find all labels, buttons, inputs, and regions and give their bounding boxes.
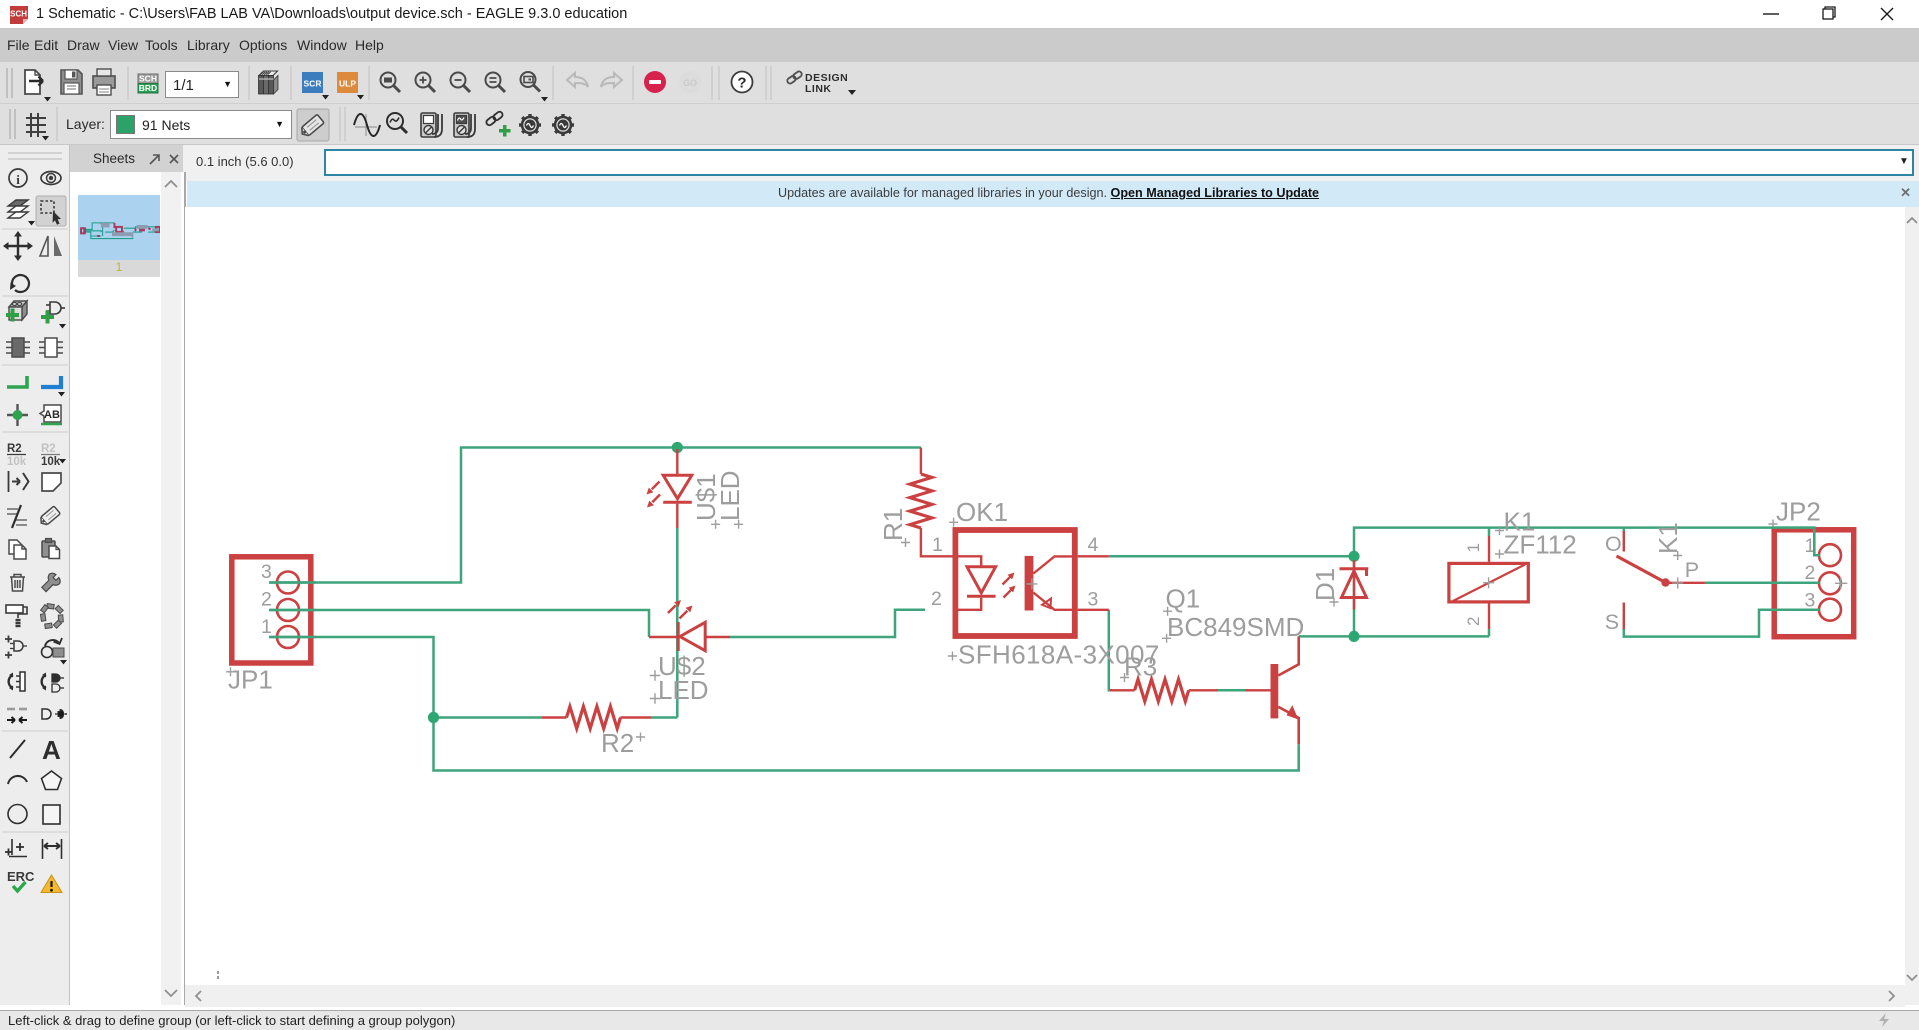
- svg-text:LED: LED: [658, 675, 709, 705]
- help: [732, 72, 753, 93]
- svg-text:LINK: LINK: [805, 83, 832, 95]
- wire D1 vertical: [1353, 556, 1356, 636]
- optocoupler OK1: [953, 530, 1109, 636]
- circle icon: [8, 805, 27, 824]
- wire R3 to Q1 base: [1218, 689, 1245, 692]
- svg-text:i: i: [16, 172, 20, 187]
- relay contact switch K1: [1617, 531, 1705, 629]
- svg-text:2: 2: [1464, 617, 1483, 626]
- wire switch S to JP2 pin3: [1624, 610, 1819, 637]
- rotate: [12, 275, 29, 292]
- rect icon: [43, 805, 60, 824]
- invoke gate: [5, 636, 27, 659]
- svg-text:SCH: SCH: [10, 10, 27, 19]
- errors warning: [41, 875, 62, 893]
- zoom in: [416, 73, 436, 93]
- svg-text:S: S: [1605, 610, 1619, 634]
- svg-text:1: 1: [932, 534, 943, 556]
- diode D1: [1340, 560, 1369, 610]
- resistor R3: [1110, 679, 1218, 701]
- zoom select: [486, 73, 506, 93]
- tag button (pressed): [297, 109, 329, 141]
- JP2 pin labels: [1805, 535, 1816, 612]
- svg-text:A: A: [42, 735, 61, 765]
- net class icon: [7, 509, 27, 525]
- svg-text:?: ?: [737, 75, 746, 92]
- svg-text:R1: R1: [878, 508, 908, 541]
- wire net N2 JP1.2 to U$2 anode: [270, 610, 649, 637]
- change icon: [42, 638, 63, 658]
- SCH/BRD icon: [138, 74, 158, 94]
- paste: [42, 539, 60, 559]
- svg-text:R2: R2: [601, 728, 634, 758]
- svg-text:P: P: [1685, 558, 1699, 582]
- wire K1 pin2 stub bottom: [1488, 629, 1491, 636]
- split icon 2: [42, 673, 64, 693]
- connector JP1: [232, 557, 311, 663]
- wire vertical U$1 cathode to R2 right: [651, 528, 677, 718]
- wire OK1 pin4 to top-right rail to JP2 pin1: [1109, 528, 1819, 557]
- trash: [10, 575, 25, 592]
- svg-text:Q1: Q1: [1166, 584, 1201, 614]
- gear 2: [552, 114, 574, 136]
- smash: [6, 338, 30, 357]
- paint roller: [6, 605, 27, 626]
- eye: [41, 172, 61, 185]
- svg-text:1: 1: [261, 616, 272, 638]
- tag small icon: [38, 506, 60, 527]
- grid icon: [26, 113, 46, 137]
- multimeter 2: [454, 113, 475, 137]
- wire overlays crossing JP1 border: [269, 528, 1820, 637]
- wire K1 pin1 stub top: [1488, 528, 1491, 536]
- svg-text:4: 4: [1088, 534, 1099, 556]
- display layers: [8, 200, 28, 218]
- svg-text:2: 2: [261, 589, 272, 611]
- svg-text:2: 2: [1805, 562, 1816, 584]
- SCR icon: [302, 72, 329, 100]
- link +: [485, 111, 504, 127]
- library books icon: [259, 71, 279, 94]
- wire Q1 collector rail to K1 pin2: [1299, 635, 1489, 638]
- dimension icon: [5, 839, 27, 857]
- junction dot D: [1348, 631, 1359, 642]
- zoom redraw: [521, 72, 541, 92]
- svg-text:BRD: BRD: [139, 83, 157, 93]
- svg-text:R2: R2: [41, 443, 56, 455]
- JP1 pin labels: [261, 561, 272, 638]
- svg-text:K1: K1: [1653, 522, 1683, 554]
- new/open doc icon: [25, 70, 43, 94]
- svg-text:BC849SMD: BC849SMD: [1167, 612, 1304, 642]
- gear 1: [519, 114, 541, 136]
- svg-text:SCR: SCR: [304, 79, 322, 89]
- sheet origin mark: [217, 971, 219, 979]
- add part: [9, 301, 27, 320]
- design link: [786, 70, 803, 84]
- pin icon: [9, 471, 29, 492]
- wire N3 tap to R2: [434, 716, 543, 719]
- label: [40, 405, 61, 422]
- svg-text:10k: 10k: [41, 456, 61, 468]
- svg-text:R2: R2: [7, 443, 22, 455]
- svg-text:3: 3: [1088, 588, 1099, 610]
- wire U$2 cathode to OK1 pin2: [730, 610, 925, 637]
- info: [9, 169, 27, 187]
- svg-text:ULP: ULP: [339, 79, 356, 89]
- wire switch O stub top: [1623, 528, 1626, 532]
- junction dot C: [1348, 551, 1359, 562]
- sheets scrollbar: [161, 172, 181, 1005]
- copy: [9, 540, 26, 559]
- move: [7, 235, 29, 257]
- zoom fit: [381, 73, 401, 93]
- svg-text:GO: GO: [683, 78, 697, 88]
- zoom out: [451, 73, 471, 93]
- mirror: [40, 236, 48, 256]
- svg-text:OK1: OK1: [956, 497, 1008, 527]
- svg-text:D1: D1: [1310, 568, 1340, 601]
- wire net N3 JP1.1 down to bottom rail: [270, 637, 1299, 771]
- transistor Q1: [1245, 636, 1299, 744]
- undo/redo (disabled): [567, 73, 622, 87]
- measure icon: [43, 839, 62, 859]
- arc icon: [8, 776, 27, 784]
- svg-text:O: O: [1605, 532, 1622, 556]
- svg-text:1: 1: [1464, 543, 1483, 552]
- LED U$2: [649, 605, 730, 651]
- sine wave: [354, 114, 380, 136]
- svg-text:LED: LED: [715, 470, 745, 521]
- replace: [39, 338, 63, 357]
- resistor R2: [542, 707, 651, 729]
- wire OK1 pin3 down to R3: [1109, 610, 1112, 691]
- thumbnail: [78, 195, 160, 260]
- junction: [7, 404, 28, 426]
- junction dot B: [428, 712, 439, 723]
- add gate: [46, 302, 65, 314]
- svg-text:JP2: JP2: [1776, 497, 1821, 527]
- bus (blue corner): [41, 376, 61, 387]
- print icon: [93, 69, 115, 95]
- wire net N1 JP1.3 to top rail to R1: [270, 448, 921, 583]
- line icon: [10, 740, 25, 758]
- arrows icon: [7, 708, 27, 711]
- net (green corner): [7, 376, 27, 387]
- svg-text:ERC: ERC: [7, 869, 35, 884]
- svg-text:SCH: SCH: [139, 74, 157, 84]
- wire switch P to JP2 pin2: [1705, 582, 1819, 585]
- split icon 1: [9, 672, 25, 691]
- LED U$1: [652, 449, 692, 528]
- svg-text:2: 2: [931, 588, 942, 610]
- ULP icon: [337, 72, 364, 100]
- svg-text:3: 3: [261, 561, 272, 583]
- svg-text:3: 3: [1805, 590, 1816, 612]
- wire overlays crossing JP2 border: [1772, 528, 1820, 556]
- polygon corner icon: [42, 473, 61, 491]
- group edit dots: [40, 604, 63, 629]
- svg-text:ZF112: ZF112: [1504, 530, 1577, 560]
- gate plug icon: [42, 709, 67, 719]
- save icon: [61, 70, 82, 94]
- svg-text:10k: 10k: [7, 456, 27, 468]
- stop (red): [644, 71, 666, 93]
- polygon icon: [42, 771, 62, 790]
- select group (pressed): [36, 196, 66, 226]
- connector JP2: [1774, 530, 1854, 637]
- magnifier sine: [387, 113, 407, 133]
- multimeter 1: [421, 113, 442, 137]
- resistor R1: [910, 448, 953, 557]
- go (disabled): [679, 71, 701, 93]
- wrench: [39, 571, 62, 594]
- junction dot A: [672, 442, 683, 453]
- relay coil K1: [1449, 536, 1528, 629]
- svg-text:AB: AB: [44, 409, 60, 421]
- svg-text:JP1: JP1: [228, 665, 273, 695]
